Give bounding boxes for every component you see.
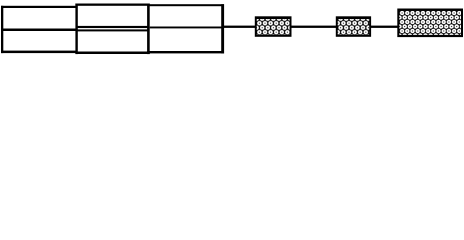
pointer chain wire: index block to data block 1 [223, 26, 257, 28]
cell2 top edge [75, 4, 149, 6]
cell2 right edge [147, 4, 150, 55]
cell3 right edge [221, 4, 224, 53]
data block 2 (stippled) [336, 16, 371, 37]
data block 1 (stippled) [255, 16, 292, 37]
cell3 divider [150, 27, 222, 29]
cell2 lower divider [77, 29, 148, 31]
index block cell 3 (right column of index table) [147, 4, 224, 53]
cell1 bottom edge [1, 51, 77, 54]
cell2 left edge (shared boundary with cell1) [75, 4, 77, 55]
cell2 bottom edge [75, 52, 149, 55]
index block cell 1 (left column of index table) [1, 6, 77, 53]
cell3 top edge [147, 4, 224, 6]
wire: data block 1 to data block 2 [290, 26, 337, 28]
cell1 divider [2, 29, 77, 32]
wire: data block 2 to data block 3 [370, 26, 400, 28]
index block cell 2 (tall middle column) [75, 4, 149, 55]
cell1 top edge [1, 6, 77, 8]
cell3 bottom edge [147, 51, 224, 53]
cell1 left edge [1, 6, 3, 53]
cell2 upper divider [77, 26, 148, 28]
data block 3 (large stippled) [397, 9, 463, 38]
background [0, 0, 464, 57]
